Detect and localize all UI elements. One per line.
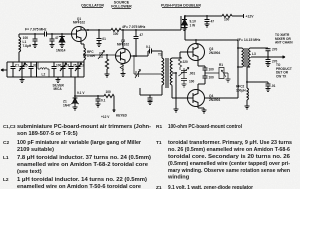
svg-text:MPF102: MPF102 [73,21,85,25]
svg-text:T1: T1 [156,140,162,146]
svg-text:100: 100 [189,80,195,84]
svg-text:9.1 volt, 1 watt, zener-diode: 9.1 volt, 1 watt, zener-diode regulator [168,185,254,189]
svg-text:winding: winding [167,175,190,181]
svg-text:KEYED: KEYED [116,114,128,118]
svg-text:C2: C2 [3,140,9,146]
svg-text:4F= 7.075 MHz: 4F= 7.075 MHz [122,25,146,29]
svg-text:(0.5mm) enamelled wire (center: (0.5mm) enamelled wire (center tapped) o… [168,161,290,167]
svg-text:1 mH: 1 mH [87,54,95,58]
svg-text:MPF102: MPF102 [117,43,129,47]
svg-text:F= 7.075 MHz: F= 7.075 MHz [25,28,47,32]
svg-text:C1,C3: C1,C3 [3,124,16,129]
svg-text:L2: L2 [42,73,46,77]
svg-text:mary winding. Observe same rot: mary winding. Observe same rotation sens… [168,168,291,174]
svg-text:1 μH toroidal inductor. 14 tur: 1 μH toroidal inductor. 14 turns no. 22 … [17,177,147,183]
svg-text:MICA: MICA [54,87,63,91]
svg-text:1N914: 1N914 [56,49,66,53]
svg-text:FOLLOWER: FOLLOWER [111,4,132,8]
svg-text:L3: L3 [252,52,256,56]
svg-text:R1: R1 [156,124,162,130]
svg-text:100-ohm PC-board-mount control: 100-ohm PC-board-mount control [168,124,242,130]
svg-text:9.1 V: 9.1 V [77,91,85,95]
svg-text:7.8μH: 7.8μH [23,44,32,48]
svg-text:+12 V: +12 V [101,115,110,119]
svg-text:subminiature PC-board-mount ai: subminiature PC-board-mount air trimmers… [17,124,151,130]
svg-text:+12V: +12V [246,15,255,19]
svg-text:1 W: 1 W [190,23,196,27]
svg-text:toroidal transformer. Primary,: toroidal transformer. Primary, 9 μH. Use… [168,140,292,146]
svg-text:OSCILLATOR: OSCILLATOR [81,3,104,7]
svg-text:7.8 μH toroidal inductor. 37 t: 7.8 μH toroidal inductor. 37 turns no. 2… [17,155,151,161]
svg-text:son 189-507-5 or T-9:5): son 189-507-5 or T-9:5) [17,131,78,137]
svg-text:.01: .01 [102,37,107,41]
svg-text:C2: C2 [80,64,84,68]
svg-text:PUSH-PUSH DOUBLER: PUSH-PUSH DOUBLER [161,3,201,7]
svg-text:CW TX: CW TX [276,74,287,78]
svg-text:100μH: 100μH [236,88,246,92]
svg-text:T1: T1 [158,53,162,57]
svg-text:270: 270 [272,48,278,52]
svg-text:100: 100 [106,90,112,94]
svg-text:.001: .001 [189,72,195,76]
svg-text:no. 26 (0.5mm) enamelled wire: no. 26 (0.5mm) enamelled wire on Amidon … [168,147,290,153]
svg-text:100 pF miniature air variable: 100 pF miniature air variable (large gan… [17,140,142,146]
svg-text:47: 47 [140,33,144,37]
svg-text:L1: L1 [3,155,9,161]
svg-text:15: 15 [24,64,28,68]
svg-text:enamelled wire on Amidon T-68-: enamelled wire on Amidon T-68-2 toroidal… [17,162,148,168]
svg-text:0.1: 0.1 [146,45,151,49]
svg-text:C3: C3 [65,64,69,68]
svg-text:100: 100 [224,18,230,22]
svg-text:100: 100 [23,36,29,40]
svg-text:100: 100 [56,64,62,68]
svg-text:ANT CHAIN: ANT CHAIN [275,41,293,45]
svg-text:enamelled wire on Amidon T-50-: enamelled wire on Amidon T-50-6 toroidal… [17,184,141,189]
svg-text:1N47: 1N47 [63,103,71,107]
svg-text:R1: R1 [219,63,223,67]
svg-text:100: 100 [113,32,119,36]
svg-text:0.1: 0.1 [101,99,106,103]
svg-text:47: 47 [211,20,215,24]
svg-text:220: 220 [183,60,189,64]
svg-text:25: 25 [73,64,77,68]
svg-text:toroidal core. Secondary is 20: toroidal core. Secondary is 20 turns no.… [168,154,290,160]
svg-text:(see text): (see text) [17,169,42,175]
svg-text:2N3904: 2N3904 [209,51,220,55]
svg-text:47: 47 [55,36,59,40]
svg-text:L2: L2 [3,177,9,183]
svg-text:100: 100 [209,76,215,80]
svg-text:.01: .01 [271,84,276,88]
svg-text:2109 suitable): 2109 suitable) [17,147,54,153]
svg-text:2N3904: 2N3904 [209,98,220,102]
svg-text:Z1: Z1 [156,185,162,189]
svg-text:100: 100 [209,68,215,72]
svg-text:33: 33 [33,64,37,68]
svg-text:2F= 14.15 MHz: 2F= 14.15 MHz [237,38,261,42]
svg-text:C1: C1 [15,64,19,68]
